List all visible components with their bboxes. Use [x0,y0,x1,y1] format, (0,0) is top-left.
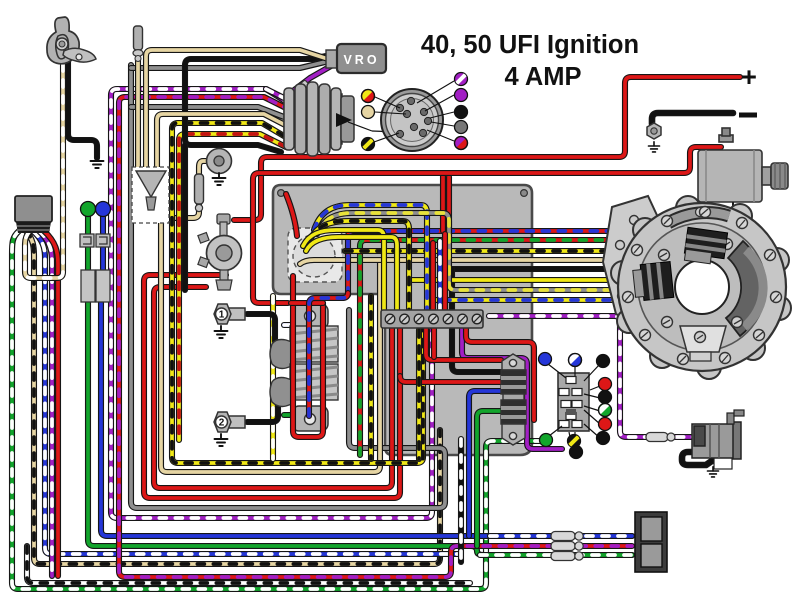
stator charge coil dark arc [726,241,764,336]
ground plug 1 [215,326,228,338]
engine connector [692,410,744,469]
wire black kill switch [68,60,97,158]
arc yellow pack 1 [303,230,384,312]
dot blue rect [539,353,552,366]
trim connector plug [635,512,667,572]
round connector pin leads [374,81,454,142]
wire black drop to regulator [452,269,501,372]
wire blue/white bottom loop [33,231,458,554]
wire white/black bottom loop [27,546,470,583]
green accessory dot [81,202,96,217]
wire black engine connector [682,452,716,465]
wire ground stub pack [446,272,452,277]
ignition coil 1 [270,326,338,369]
wire black plug 2 [247,389,288,422]
wire red/blue drop to coil [309,293,348,416]
wire black minus [652,113,733,124]
inline fuse holder top [134,26,143,50]
hex nut [647,123,661,139]
wire gray branch to connector mid [131,107,284,117]
wire tan/white kill switch lead [25,64,63,278]
wire red to regulator mid [400,376,501,382]
wire green branch to regulator [477,411,501,546]
wire blue accessory [100,216,106,270]
stator bottom trapezoid [680,326,726,352]
ground pack black [440,277,453,289]
wire blue/white coil stub [284,322,300,328]
minus symbol [739,113,757,118]
wire black VRO to connector [185,56,326,152]
wire row black w/ground [452,266,622,272]
starter solenoid [698,128,788,202]
dot black rect4 [570,446,583,459]
wire purple to VRO [285,66,331,97]
inline connector bottom 2 [551,542,575,551]
ignition sensor coil [198,214,242,290]
stator main plate [618,203,786,371]
wire red drop to strip 2 [442,234,448,312]
wire yellow/black drop mid [368,296,374,459]
regulator in pack [501,354,526,445]
dot purple/white [455,73,468,86]
ground solenoid [727,203,740,215]
wire row purple/white to engine connector [489,316,694,437]
wire gray main [131,65,445,508]
spark plug 1 [214,304,245,324]
wire red B sensor/bundle [154,287,392,488]
round connector face [381,89,443,151]
wire yellow/white pack edge [270,296,276,459]
inline connector on purple [294,80,309,95]
stator coil top [683,227,727,265]
dot red rect1 [599,378,612,391]
coil bracket top [292,304,328,329]
svg-text:40, 50 UFI Ignition: 40, 50 UFI Ignition [421,31,639,59]
wire gray branch to VRO [131,62,325,68]
blue accessory dot [96,202,111,217]
wire red solenoid feed [253,147,721,303]
wire red to regulator top [426,328,501,360]
stator wing bracket [603,196,662,330]
ground engine connector [707,467,718,477]
inline connector bottom 1 [551,532,575,541]
wire black plug 1 [247,314,286,350]
fuse block blue [96,270,110,302]
stator inner ring [638,223,766,351]
wire green to bundle [88,302,632,555]
wire purple/white short to barrel [266,89,290,101]
ground nut [648,142,659,152]
wire tan row to stator [300,260,602,264]
svg-text:VRO: VRO [343,53,379,67]
ground kill switch [91,156,104,168]
wire row yellow/blue [427,297,624,303]
wire red coil loop [293,276,323,437]
wire red drop short [431,328,437,357]
wire blue white-dash tail [490,533,632,539]
wire yellow/black main [172,123,423,463]
dot black/yellow [362,138,375,151]
diode funnel dashed box [132,167,169,223]
svg-text:1: 1 [219,310,225,321]
power pack dashed sensor zone [288,228,342,282]
coil bracket bottom [292,406,328,431]
arc yellow pack 2 [306,237,397,312]
inline fuse holder mid [195,174,204,204]
svg-text:+: + [741,62,757,92]
stator charge coil inner band [744,250,763,327]
wire black stub down [182,145,188,290]
dot black/yellow rect [568,435,581,448]
arc yellow/blue pack [314,205,427,312]
dot gray [455,121,468,134]
dot red rect2 [599,418,612,431]
dot black pin [455,106,468,119]
wire purple/white from cable [39,231,52,576]
wire blue/white drop to strip [437,241,443,312]
wire green white-dash tail [480,552,632,558]
VRO oil module [326,50,339,68]
spark plug 2 [214,412,245,432]
ground plug 2 [215,434,228,446]
wire purple around regulator [462,328,562,449]
inline connector bottom 3 [551,552,575,561]
dot tan [362,106,375,119]
power pack CD unit body [273,185,532,455]
wire red coil loop top [291,300,323,306]
wire red from cable [44,231,58,576]
dot black rect3 [597,432,610,445]
dot blue/white rect [569,354,582,367]
wire red drop to strip 1 [430,243,436,312]
stator coil left [632,262,674,302]
wire red A sensor/bundle [144,275,400,498]
wire red from + terminal [234,77,740,220]
wire tan fuse to funnel [135,57,141,172]
inline connector purple [646,433,668,442]
wire red into pack corner [286,194,297,236]
stator plate tabs [611,196,791,379]
wire tan/black bottom loop [26,231,440,564]
stator screws [623,207,782,365]
dot green rect [540,434,553,447]
timer base pulley [207,149,232,174]
dot black rect1 [597,355,610,368]
ignition coil 2 [270,364,338,407]
dot green/white rect [599,404,612,417]
wire red along pack edge [466,328,534,420]
wire purple/white main [111,89,432,518]
wire row yellow [409,277,628,283]
wire black/white drop [458,439,464,562]
svg-text:2: 2 [219,418,225,429]
terminal strip [381,310,483,328]
wire red/purple main [119,97,632,577]
wire tan to barrel [157,114,289,168]
dot purple/red [455,137,468,150]
accessory terminal 2 [96,234,110,247]
wire row yellow/black [345,248,628,254]
stator top strap [668,213,729,223]
rectifier leads [548,364,600,452]
connector arrow [336,113,352,127]
svg-text:4 AMP: 4 AMP [505,63,582,91]
wire red drop from + rail [440,175,446,231]
arc yellow/black pack [310,221,409,312]
wire red/blue upper [348,231,633,295]
main harness connector [15,196,52,222]
round connector pins [396,97,431,137]
dot red/yellow [362,90,375,103]
wire tan funnel to VRO [146,50,331,172]
wire blue branch to regulator [469,391,501,536]
ground pulley [213,173,226,185]
wire tan pulley-funnel-bundle [161,161,380,472]
dot purple [455,89,468,102]
wire green accessory [85,216,91,270]
kill switch safety clip [47,17,96,64]
stator hub hole [675,260,729,314]
wire blue to bundle [101,302,632,536]
rectifier block [558,373,589,431]
dot black rect2 [599,391,612,404]
wire green/white bottom loop [12,231,540,589]
arc gray/yellow pack [317,213,626,290]
wire green coil stub [284,412,300,418]
accessory terminal 1 [80,234,94,247]
wire yellow/black drop right [416,330,422,459]
fuse block green [81,270,95,302]
wire red drop 2 [446,177,452,240]
wire red/green row+drop [360,240,636,455]
wire yellow/red [179,134,286,440]
main connector barrel [284,82,354,156]
power pack dashed circle [293,235,335,277]
